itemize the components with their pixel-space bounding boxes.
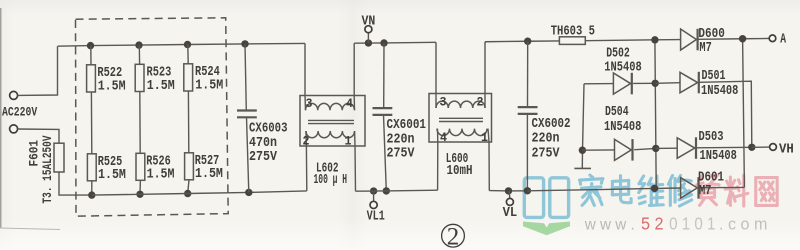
svg-text:1N5408: 1N5408 (604, 119, 641, 135)
svg-text:1N5408: 1N5408 (604, 60, 641, 76)
svg-text:1.5M: 1.5M (98, 79, 126, 95)
svg-text:. c o m: . c o m (719, 216, 767, 234)
svg-text:AC220V: AC220V (2, 105, 37, 120)
svg-text:VL: VL (503, 205, 518, 221)
svg-text:1: 1 (345, 133, 352, 148)
svg-text:D503: D503 (699, 129, 724, 145)
svg-text:1.5M: 1.5M (147, 166, 175, 182)
svg-text:M7: M7 (699, 40, 711, 56)
svg-text:VL1: VL1 (367, 208, 385, 224)
svg-text:4: 4 (346, 96, 353, 111)
svg-text:3: 3 (306, 96, 313, 111)
svg-text:1N5408: 1N5408 (701, 83, 738, 99)
svg-text:T3. 15AL250V: T3. 15AL250V (40, 135, 55, 203)
svg-text:100 μ H: 100 μ H (314, 172, 348, 188)
svg-text:1: 1 (481, 130, 488, 145)
svg-text:4: 4 (440, 130, 447, 145)
svg-text:1N5408: 1N5408 (700, 148, 737, 164)
svg-text:275V: 275V (387, 146, 415, 162)
svg-text:D504: D504 (605, 104, 629, 120)
svg-text:D501: D501 (702, 68, 726, 84)
svg-text:w w w .: w w w . (584, 217, 635, 234)
svg-text:1.5M: 1.5M (98, 167, 126, 183)
svg-text:5 2: 5 2 (641, 214, 664, 234)
svg-text:A: A (780, 31, 786, 47)
svg-text:CX6002: CX6002 (532, 116, 571, 132)
svg-text:3: 3 (440, 95, 447, 110)
svg-text:2: 2 (447, 223, 460, 250)
svg-text:VH: VH (779, 142, 794, 158)
svg-text:2: 2 (303, 133, 310, 148)
svg-text:2: 2 (477, 95, 484, 110)
svg-text:TH603 5: TH603 5 (551, 23, 595, 39)
svg-text:M7: M7 (699, 183, 711, 199)
svg-text:VN: VN (362, 13, 376, 29)
svg-text:220n: 220n (532, 131, 560, 147)
svg-text:10mH: 10mH (447, 163, 473, 179)
svg-text:1.5M: 1.5M (195, 166, 223, 182)
svg-text:1.5M: 1.5M (147, 78, 175, 94)
svg-text:275V: 275V (249, 149, 277, 165)
svg-text:1.5M: 1.5M (195, 78, 223, 94)
svg-text:0 1 0 1: 0 1 0 1 (669, 214, 715, 234)
svg-text:275V: 275V (532, 146, 560, 162)
